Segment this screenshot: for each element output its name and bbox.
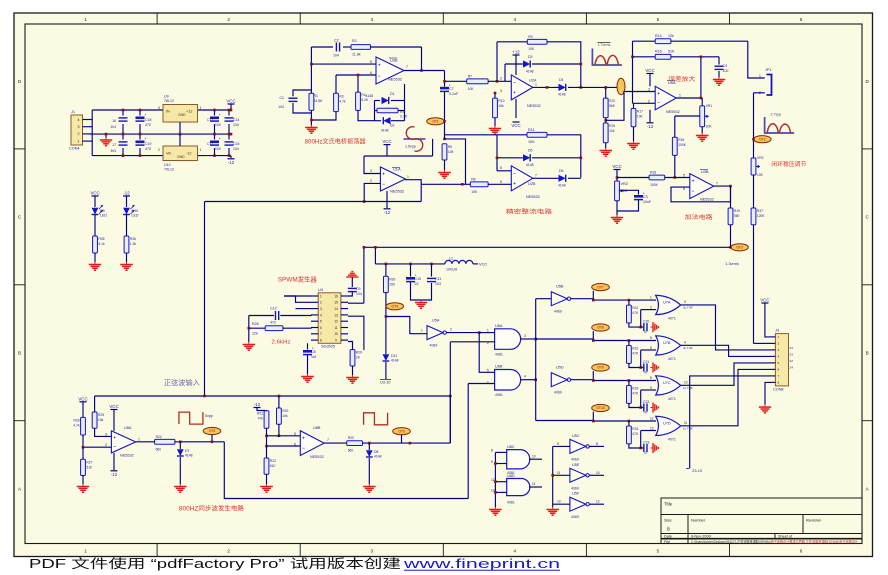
svg-text:U10: U10: [164, 163, 171, 167]
svg-text:11: 11: [557, 471, 561, 475]
svg-text:510: 510: [86, 465, 92, 469]
svg-text:3: 3: [320, 307, 322, 311]
svg-text:VCC: VCC: [109, 404, 118, 409]
svg-text:800HZ同步波发生电路: 800HZ同步波发生电路: [179, 505, 244, 513]
svg-text:6: 6: [500, 166, 502, 170]
svg-text:C21: C21: [643, 360, 649, 364]
svg-text:10k: 10k: [282, 414, 288, 418]
svg-text:-12: -12: [647, 124, 654, 129]
svg-text:13: 13: [650, 427, 654, 431]
svg-text:C7: C7: [449, 87, 454, 91]
svg-text:OT8: OT8: [597, 326, 604, 330]
svg-text:1: 1: [679, 94, 681, 98]
svg-text:24: 24: [790, 366, 794, 370]
svg-text:R37: R37: [757, 209, 763, 213]
svg-text:100: 100: [215, 147, 221, 151]
svg-text:−: −: [378, 73, 381, 78]
svg-text:−: −: [302, 446, 305, 451]
svg-text:47K: 47K: [632, 432, 639, 436]
svg-text:15: 15: [334, 301, 338, 305]
svg-text:51.8K: 51.8K: [314, 99, 324, 103]
svg-text:C22: C22: [643, 400, 649, 404]
svg-text:C11: C11: [435, 277, 441, 281]
svg-text:4069: 4069: [554, 391, 562, 395]
svg-text:B: B: [18, 351, 21, 356]
svg-text:7: 7: [320, 332, 322, 336]
svg-text:9: 9: [491, 460, 493, 464]
svg-text:4148: 4148: [374, 455, 382, 459]
svg-text:VCC: VCC: [382, 139, 391, 144]
svg-text:2: 2: [78, 132, 80, 136]
svg-text:10k: 10k: [498, 104, 504, 108]
svg-text:R16: R16: [655, 50, 662, 54]
svg-text:NE5532: NE5532: [120, 454, 134, 458]
svg-text:R31: R31: [632, 306, 638, 310]
svg-text:560: 560: [348, 449, 354, 453]
svg-text:Date: Date: [664, 535, 672, 539]
svg-text:560: 560: [734, 214, 740, 218]
svg-text:OT6: OT6: [398, 429, 405, 433]
svg-text:23-10: 23-10: [692, 469, 702, 473]
svg-text:Sheet of: Sheet of: [778, 535, 793, 539]
svg-text:10: 10: [532, 455, 536, 459]
svg-text:6: 6: [370, 71, 372, 75]
svg-text:J1: J1: [71, 110, 75, 114]
svg-text:1.7vrms: 1.7vrms: [598, 43, 611, 47]
svg-text:−: −: [513, 80, 516, 85]
svg-text:−: −: [382, 181, 385, 186]
svg-text:2: 2: [650, 306, 652, 310]
svg-text:11: 11: [684, 421, 688, 425]
svg-text:12: 12: [334, 320, 338, 324]
svg-text:R6: R6: [448, 145, 452, 149]
svg-text:+: +: [513, 181, 516, 186]
svg-text:D4: D4: [559, 78, 564, 82]
svg-text:5: 5: [557, 442, 559, 446]
svg-text:R23: R23: [348, 436, 354, 440]
svg-text:11.8k: 11.8k: [352, 53, 361, 57]
svg-text:2: 2: [105, 443, 107, 447]
svg-text:12: 12: [650, 417, 654, 421]
svg-text:4: 4: [524, 375, 526, 379]
svg-text:B: B: [667, 527, 670, 532]
svg-text:3: 3: [500, 89, 502, 93]
svg-text:OT9: OT9: [597, 366, 604, 370]
svg-text:D8: D8: [374, 450, 379, 454]
svg-text:U8B: U8B: [313, 426, 321, 430]
svg-text:5: 5: [683, 174, 685, 178]
svg-text:1.3vrms: 1.3vrms: [725, 262, 739, 266]
svg-text:21: 21: [790, 346, 794, 350]
svg-text:Revision: Revision: [806, 518, 821, 523]
svg-text:10uF: 10uF: [643, 200, 652, 204]
svg-text:+: +: [219, 137, 221, 141]
svg-text:10K: 10K: [528, 47, 535, 51]
svg-text:OT7: OT7: [597, 285, 604, 289]
svg-text:4148: 4148: [558, 93, 566, 97]
svg-text:R18: R18: [650, 171, 656, 175]
svg-text:VCC: VCC: [612, 164, 621, 169]
svg-text:R24: R24: [156, 435, 162, 439]
svg-text:16: 16: [112, 119, 116, 123]
svg-text:OT3: OT3: [736, 246, 743, 250]
svg-text:+: +: [692, 179, 695, 184]
svg-text:B: B: [866, 351, 869, 356]
svg-text:1c 7-3F: 1c 7-3F: [683, 427, 693, 431]
svg-text:+: +: [219, 113, 221, 117]
svg-text:4081: 4081: [507, 501, 515, 505]
svg-text:3: 3: [778, 348, 780, 352]
svg-text:C18: C18: [145, 118, 151, 122]
svg-text:4148: 4148: [365, 94, 373, 98]
svg-text:C:\Users\Admin\Desktop\091107-: C:\Users\Admin\Desktop\091107-正弦波脉宽调制(SP…: [691, 539, 858, 544]
svg-text:13: 13: [557, 500, 561, 504]
svg-text:4071: 4071: [668, 357, 676, 361]
svg-text:6: 6: [294, 443, 296, 447]
svg-text:1: 1: [407, 175, 409, 179]
svg-text:U8C: U8C: [507, 445, 515, 449]
svg-text:10K: 10K: [471, 190, 478, 194]
svg-text:47: 47: [644, 371, 648, 375]
svg-text:C14: C14: [233, 118, 239, 122]
svg-text:4: 4: [514, 549, 517, 554]
svg-text:0.1uF: 0.1uF: [449, 92, 459, 96]
svg-text:+: +: [144, 113, 146, 117]
svg-text:3: 3: [78, 125, 80, 129]
svg-text:精密整流电路: 精密整流电路: [506, 208, 552, 216]
svg-text:D3: D3: [528, 55, 533, 59]
svg-text:1: 1: [78, 139, 80, 143]
svg-text:3: 3: [684, 300, 686, 304]
svg-text:R26: R26: [74, 418, 80, 422]
svg-text:470: 470: [145, 123, 151, 127]
svg-text:C13: C13: [207, 118, 213, 122]
svg-text:4148: 4148: [391, 359, 399, 363]
svg-text:C4: C4: [723, 64, 728, 68]
svg-text:5: 5: [500, 180, 502, 184]
svg-text:VCC: VCC: [90, 191, 99, 196]
svg-text:4081: 4081: [495, 353, 503, 357]
svg-text:D7: D7: [185, 449, 190, 453]
svg-text:R16: R16: [678, 138, 684, 142]
svg-text:NE5532: NE5532: [700, 198, 714, 202]
svg-text:4: 4: [778, 355, 780, 359]
svg-text:10K: 10K: [621, 189, 628, 193]
svg-text:Title: Title: [664, 502, 673, 507]
svg-text:4071: 4071: [668, 397, 676, 401]
svg-text:U5A: U5A: [432, 319, 440, 323]
svg-text:2.6kHz: 2.6kHz: [272, 340, 291, 346]
svg-text:510: 510: [270, 464, 276, 468]
svg-text:8: 8: [596, 442, 598, 446]
svg-text:51K: 51K: [668, 50, 675, 54]
svg-text:47K: 47K: [632, 352, 639, 356]
svg-text:2: 2: [500, 77, 502, 81]
svg-text:U2B: U2B: [528, 182, 536, 186]
svg-text:-12: -12: [123, 191, 130, 196]
svg-text:8: 8: [778, 381, 780, 385]
svg-text:7: 7: [327, 438, 329, 442]
svg-text:104: 104: [233, 123, 239, 127]
svg-text:R19: R19: [734, 209, 740, 213]
svg-text:+: +: [513, 90, 516, 95]
svg-text:4: 4: [684, 341, 686, 345]
svg-text:17: 17: [112, 143, 116, 147]
svg-text:+: +: [378, 63, 381, 68]
svg-text:D6: D6: [559, 169, 564, 173]
svg-text:12k: 12k: [252, 332, 258, 336]
svg-text:VCC: VCC: [78, 396, 87, 401]
svg-text:LED: LED: [132, 214, 139, 218]
svg-text:2: 2: [648, 100, 650, 104]
svg-text:2: 2: [227, 17, 230, 22]
svg-text:+12: +12: [186, 110, 192, 114]
svg-text:R2: R2: [352, 39, 357, 43]
svg-text:NE5532: NE5532: [666, 110, 680, 114]
svg-text:5: 5: [657, 17, 660, 22]
svg-text:Number: Number: [691, 518, 706, 523]
svg-text:1: 1: [84, 549, 87, 554]
svg-text:47K: 47K: [632, 311, 639, 315]
svg-text:560: 560: [156, 447, 162, 451]
svg-text:NE5532: NE5532: [390, 189, 404, 194]
svg-text:16: 16: [334, 294, 338, 298]
svg-text:R34: R34: [632, 427, 638, 431]
svg-text:C2: C2: [334, 39, 339, 43]
svg-text:R32: R32: [632, 347, 638, 351]
svg-text:C3: C3: [643, 195, 648, 199]
svg-text:4081: 4081: [495, 393, 503, 397]
svg-text:D9: D9: [100, 209, 105, 213]
svg-text:R21: R21: [257, 412, 263, 416]
svg-text:-12: -12: [254, 402, 261, 407]
svg-text:NE5532: NE5532: [310, 455, 324, 459]
svg-text:C12: C12: [207, 142, 213, 146]
svg-text:6: 6: [778, 368, 780, 372]
svg-text:4071: 4071: [668, 317, 676, 321]
svg-text:10k: 10k: [668, 34, 674, 38]
svg-text:22: 22: [790, 359, 794, 363]
svg-text:D11: D11: [391, 354, 397, 358]
svg-text:10: 10: [596, 471, 600, 475]
svg-text:R35: R35: [98, 237, 104, 241]
svg-text:11: 11: [532, 482, 536, 486]
svg-text:1: 1: [320, 294, 322, 298]
svg-text:1: 1: [487, 329, 489, 333]
svg-text:10K: 10K: [528, 140, 535, 144]
svg-text:5: 5: [370, 60, 372, 64]
svg-text:100K: 100K: [678, 143, 687, 147]
svg-text:11: 11: [334, 326, 338, 330]
svg-text:23: 23: [790, 353, 794, 357]
svg-text:104: 104: [233, 147, 239, 151]
svg-text:3: 3: [105, 433, 107, 437]
svg-text:VCC: VCC: [479, 262, 487, 267]
svg-text:2: 2: [320, 301, 322, 305]
svg-text:100K: 100K: [650, 183, 659, 187]
svg-text:R36: R36: [130, 237, 136, 241]
svg-text:C9: C9: [356, 287, 361, 291]
svg-text:D5: D5: [528, 149, 533, 153]
svg-text:4: 4: [78, 118, 80, 122]
svg-text:104: 104: [278, 105, 284, 109]
svg-text:C10: C10: [415, 277, 422, 281]
svg-text:+: +: [144, 137, 146, 141]
svg-text:JP1: JP1: [765, 68, 772, 72]
svg-text:U7C: U7C: [663, 381, 671, 385]
svg-text:4071: 4071: [668, 438, 676, 442]
svg-text:LED: LED: [100, 214, 107, 218]
svg-text:U5F: U5F: [572, 492, 580, 496]
svg-text:PDF 文件使用 “pdfFactory Pro” 试用版本: PDF 文件使用 “pdfFactory Pro” 试用版本创建: [29, 556, 402, 571]
svg-text:4148: 4148: [558, 184, 566, 188]
svg-text:R3: R3: [339, 94, 343, 98]
svg-text:1: 1: [200, 148, 202, 152]
svg-text:CON8: CON8: [773, 388, 784, 392]
svg-text:2: 2: [450, 328, 452, 332]
svg-text:C8: C8: [311, 350, 316, 354]
svg-text:OT5: OT5: [209, 429, 216, 433]
svg-text:C19: C19: [145, 142, 151, 146]
svg-text:22: 22: [415, 282, 419, 286]
svg-text:5: 5: [778, 361, 780, 365]
svg-text:−: −: [692, 189, 695, 194]
svg-text:1: 1: [778, 335, 780, 339]
svg-text:R25: R25: [98, 413, 104, 417]
svg-text:U4: U4: [318, 288, 323, 292]
svg-text:R10: R10: [498, 99, 504, 103]
svg-text:IN: IN: [166, 110, 170, 114]
svg-text:7: 7: [716, 182, 718, 186]
svg-text:GND: GND: [178, 113, 186, 117]
svg-text:5vpp: 5vpp: [205, 414, 213, 418]
svg-text:U8A: U8A: [124, 426, 132, 430]
svg-text:+: +: [382, 172, 385, 177]
svg-text:1.5vpp: 1.5vpp: [405, 145, 416, 149]
svg-text:-12: -12: [384, 210, 391, 215]
svg-text:1: 1: [138, 438, 140, 442]
svg-text:加法电路: 加法电路: [685, 213, 713, 221]
svg-text:NE5532: NE5532: [526, 195, 540, 199]
svg-text:100UH: 100UH: [446, 268, 458, 272]
svg-text:U7D: U7D: [663, 422, 671, 426]
svg-text:13: 13: [334, 313, 338, 317]
svg-text:U5C: U5C: [572, 434, 580, 438]
svg-text:正弦波输入: 正弦波输入: [164, 378, 200, 387]
svg-text:1: 1: [84, 17, 87, 22]
svg-text:File: File: [664, 540, 670, 544]
svg-text:闭环稳压调节: 闭环稳压调节: [771, 160, 806, 168]
svg-text:5.1k: 5.1k: [98, 242, 105, 246]
svg-text:4.7k: 4.7k: [73, 423, 80, 427]
svg-text:47: 47: [644, 330, 648, 334]
svg-text:www.fineprint.cn: www.fineprint.cn: [402, 557, 560, 571]
svg-text:4148: 4148: [526, 70, 534, 74]
svg-text:10: 10: [334, 332, 338, 336]
svg-text:VCC: VCC: [645, 68, 654, 73]
svg-text:56K: 56K: [609, 104, 616, 108]
svg-text:78L12: 78L12: [164, 99, 174, 103]
svg-text:Vin: Vin: [166, 152, 171, 156]
svg-text:GND: GND: [177, 155, 185, 159]
svg-text:47k: 47k: [258, 417, 264, 421]
svg-text:R30: R30: [389, 277, 395, 281]
svg-text:C1: C1: [280, 96, 285, 100]
svg-text:R14: R14: [655, 34, 662, 38]
svg-text:D2: D2: [390, 124, 395, 128]
svg-text:-12: -12: [228, 160, 235, 165]
svg-text:10K: 10K: [448, 150, 455, 154]
svg-text:102: 102: [723, 69, 729, 73]
svg-text:+: +: [302, 436, 305, 441]
svg-text:R27: R27: [86, 460, 92, 464]
svg-text:47K: 47K: [632, 392, 639, 396]
svg-text:79L12: 79L12: [164, 168, 174, 172]
svg-text:U5B: U5B: [556, 285, 564, 289]
svg-text:-12: -12: [111, 472, 118, 477]
svg-text:47: 47: [644, 411, 648, 415]
svg-text:12: 12: [596, 500, 600, 504]
svg-text:−: −: [113, 444, 116, 449]
svg-text:R15: R15: [609, 124, 615, 128]
svg-text:R33: R33: [632, 387, 638, 391]
svg-text:2.7K: 2.7K: [400, 115, 408, 119]
svg-text:1.3k: 1.3k: [130, 242, 137, 246]
svg-text:10K: 10K: [706, 125, 713, 129]
svg-text:5: 5: [294, 432, 296, 436]
svg-text:1: 1: [535, 83, 537, 87]
svg-text:R1: R1: [314, 94, 319, 98]
svg-text:10k: 10k: [609, 129, 615, 133]
svg-text:100: 100: [215, 123, 221, 127]
svg-text:VR1: VR1: [706, 104, 713, 108]
svg-text:7: 7: [406, 65, 408, 69]
svg-text:U6B: U6B: [495, 365, 503, 369]
svg-text:5: 5: [320, 320, 322, 324]
svg-text:2: 2: [370, 179, 372, 183]
svg-text:R12: R12: [609, 99, 615, 103]
svg-text:U9: U9: [164, 95, 169, 99]
svg-text:104: 104: [333, 54, 339, 58]
svg-text:R22: R22: [270, 459, 276, 463]
svg-text:1c 7-3F: 1c 7-3F: [683, 386, 693, 390]
svg-text:4.7k: 4.7k: [339, 99, 346, 103]
svg-text:150: 150: [389, 282, 395, 286]
svg-text:4069: 4069: [571, 515, 579, 519]
svg-text:U5D: U5D: [556, 366, 564, 370]
svg-text:800Hz文氏电桥振荡器: 800Hz文氏电桥振荡器: [305, 138, 366, 146]
svg-text:U7A: U7A: [663, 301, 671, 305]
svg-text:5: 5: [650, 336, 652, 340]
svg-text:D10: D10: [132, 209, 139, 213]
svg-text:OT2: OT2: [759, 137, 766, 141]
svg-text:3: 3: [371, 549, 374, 554]
svg-text:+: +: [113, 435, 116, 440]
svg-text:C15: C15: [233, 142, 239, 146]
svg-text:VCC: VCC: [760, 298, 769, 303]
svg-text:U6A: U6A: [495, 324, 503, 328]
svg-text:4: 4: [514, 17, 517, 22]
svg-text:+12: +12: [512, 50, 520, 55]
svg-text:J3: J3: [775, 329, 779, 333]
svg-text:10K: 10K: [468, 87, 475, 91]
svg-text:2: 2: [778, 342, 780, 346]
svg-text:8: 8: [650, 376, 652, 380]
svg-text:6: 6: [320, 326, 322, 330]
svg-text:6: 6: [800, 549, 803, 554]
svg-text:2.7vpp: 2.7vpp: [771, 113, 782, 117]
svg-text:8: 8: [491, 449, 493, 453]
